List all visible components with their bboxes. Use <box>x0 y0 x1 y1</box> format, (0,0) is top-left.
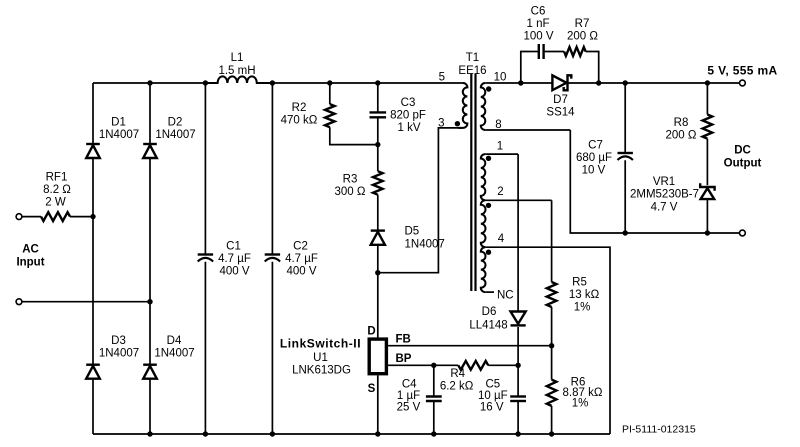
wire VR1 to return rail <box>706 199 708 233</box>
wire RF1 to bridge node <box>70 216 93 218</box>
svg-text:R5: R5 <box>572 277 587 289</box>
svg-text:LinkSwitch-II: LinkSwitch-II <box>280 337 361 351</box>
wire R2 bottom to clamp node <box>330 127 378 144</box>
phasing dot bias pin 2 <box>486 203 491 208</box>
svg-text:BP: BP <box>396 353 412 365</box>
wire R3 to D5 cathode <box>377 195 379 231</box>
svg-text:D4: D4 <box>167 335 182 347</box>
svg-text:S: S <box>368 383 376 395</box>
diode D2 <box>143 143 157 145</box>
svg-text:C3: C3 <box>401 97 416 109</box>
junction bottom bus / R6 <box>549 431 554 436</box>
junction RF1 / D1-D3 node <box>90 214 95 219</box>
wire U1 S pin to bottom bus <box>377 375 379 434</box>
svg-text:1.5 mH: 1.5 mH <box>218 65 255 77</box>
svg-text:D5: D5 <box>405 226 420 238</box>
svg-text:8: 8 <box>495 119 501 131</box>
resistor R5 <box>547 282 557 307</box>
wire snubber right riser <box>586 52 599 84</box>
svg-text:PI-5111-012315: PI-5111-012315 <box>622 424 696 436</box>
svg-text:LNK613DG: LNK613DG <box>292 365 351 377</box>
junction bottom bus / C2 <box>270 431 275 436</box>
svg-text:4.7 µF: 4.7 µF <box>285 253 318 265</box>
diode D1 <box>86 143 100 145</box>
svg-text:1N4007: 1N4007 <box>99 129 139 141</box>
svg-text:200 Ω: 200 Ω <box>666 130 697 142</box>
junction top bus / R2 <box>327 80 332 85</box>
wire D2 anode to AC node <box>149 158 151 302</box>
wire C6 to R7 <box>544 51 565 53</box>
wire D6 cathode to BP node <box>517 327 519 365</box>
phasing dot bias pin 4 <box>486 250 491 255</box>
svg-text:10 µF: 10 µF <box>478 390 508 402</box>
wire C2 to bottom bus <box>271 262 273 434</box>
svg-text:3: 3 <box>438 118 444 130</box>
svg-text:R3: R3 <box>343 174 358 186</box>
wire top bus to C2 <box>271 83 273 255</box>
svg-text:U1: U1 <box>313 352 328 364</box>
junction FB / R5 / R6 <box>549 343 554 348</box>
wire pin 1 lead <box>485 153 518 155</box>
svg-text:D2: D2 <box>168 117 183 129</box>
svg-text:T1: T1 <box>466 52 479 64</box>
svg-text:VR1: VR1 <box>653 176 675 188</box>
wire pin 2 down to R5 <box>551 200 553 282</box>
wire D5 anode to drain node <box>377 245 379 273</box>
wire drain node jog to transformer pin 3 <box>378 128 463 273</box>
svg-text:100 V: 100 V <box>523 31 553 43</box>
capacitor C4 <box>426 395 442 397</box>
wire D6 node to C5 <box>517 365 519 396</box>
junction top bus / C3 <box>375 80 380 85</box>
svg-text:1 kV: 1 kV <box>397 122 420 134</box>
svg-text:10: 10 <box>494 72 507 84</box>
wire pin 10 to snubber node <box>489 82 552 84</box>
wire R4 to D6/C5 node <box>488 364 518 366</box>
svg-text:R4: R4 <box>450 368 465 380</box>
svg-text:1N4007: 1N4007 <box>155 129 195 141</box>
wire pin 8 to return rail <box>570 130 739 233</box>
wire R8 to VR1 <box>706 139 708 186</box>
capacitor C2 <box>265 253 280 255</box>
junction drain node D5/pin3/U1 <box>375 270 380 275</box>
resistor R7 <box>564 47 586 56</box>
svg-text:25 V: 25 V <box>397 402 421 414</box>
transformer T1 bias winding 2-4 <box>481 200 486 247</box>
junction top bus / C1 / L1 left <box>203 80 208 85</box>
junction bottom bus / C5 <box>515 431 520 436</box>
diode D7 SS14 <box>552 75 566 90</box>
wire bottom bus up to transformer pin 4 <box>486 247 610 434</box>
wire D1 anode to RF1 node <box>92 158 94 216</box>
wire D4 anode to bottom bus <box>149 379 151 434</box>
svg-text:C5: C5 <box>485 379 500 391</box>
svg-text:10 V: 10 V <box>582 165 606 177</box>
svg-text:300 Ω: 300 Ω <box>335 186 366 198</box>
input terminal AC line 1 <box>16 214 22 220</box>
svg-text:400 V: 400 V <box>286 266 316 278</box>
junction BP / C4 <box>431 363 436 368</box>
output terminal negative <box>740 230 746 236</box>
wire AC line 1 to RF1 <box>22 216 41 218</box>
svg-text:5: 5 <box>439 72 445 84</box>
svg-text:D1: D1 <box>111 117 126 129</box>
svg-text:820 pF: 820 pF <box>390 110 426 122</box>
svg-text:1 µF: 1 µF <box>397 390 420 402</box>
junction bottom bus / U1 S <box>375 431 380 436</box>
wire R6 to bottom bus <box>551 406 553 434</box>
svg-text:Input: Input <box>16 257 44 269</box>
svg-text:1 nF: 1 nF <box>526 18 549 30</box>
phasing dot primary pin 3 <box>455 121 460 126</box>
junction top bus / C2 / L1 right <box>270 80 275 85</box>
wire D3 anode to bottom bus <box>92 379 94 434</box>
junction R4 / D6 / C5 <box>515 363 520 368</box>
capacitor C7 <box>618 152 633 154</box>
junction return rail / VR1 <box>705 230 710 235</box>
svg-text:R2: R2 <box>292 102 307 114</box>
diode D3 <box>86 364 100 366</box>
wire BP node to C4 <box>433 365 435 396</box>
svg-text:LL4148: LL4148 <box>469 320 507 332</box>
wire rail to R8 <box>706 83 708 115</box>
svg-text:SS14: SS14 <box>546 107 575 119</box>
resistor R6 <box>547 380 557 406</box>
wire top bus L1 to transformer pin 5 <box>272 82 463 84</box>
svg-text:AC: AC <box>22 244 39 256</box>
junction snubber left / rail <box>518 80 523 85</box>
svg-text:D6: D6 <box>482 306 497 318</box>
svg-text:1N4007: 1N4007 <box>99 348 139 360</box>
svg-text:C2: C2 <box>293 241 308 253</box>
wire C4 to bottom bus <box>433 401 435 434</box>
wire pin 4 lead <box>484 246 487 248</box>
wire C6 left lead <box>531 51 539 53</box>
wire AC node down to D4 <box>149 302 151 365</box>
wire bottom bus <box>93 433 610 435</box>
wire top bus corner down to D1 <box>92 83 94 144</box>
junction rail / R8 <box>705 80 710 85</box>
junction top bus / D2 <box>147 80 152 85</box>
svg-text:EE16: EE16 <box>458 65 486 77</box>
wire R5 to FB node <box>551 307 553 346</box>
svg-text:C7: C7 <box>588 140 603 152</box>
wire NC stub <box>485 291 494 293</box>
wire C7 to return rail <box>624 160 626 233</box>
inductor L1 <box>205 76 272 83</box>
svg-text:C4: C4 <box>402 379 417 391</box>
svg-text:Output: Output <box>724 158 762 170</box>
diode D6 <box>511 312 526 324</box>
wire top bus to C3 <box>377 83 379 112</box>
svg-text:2: 2 <box>497 186 503 198</box>
svg-text:RF1: RF1 <box>46 172 68 184</box>
capacitor C5 <box>510 395 526 397</box>
wire drain node to U1 D pin <box>377 273 379 338</box>
diode D5 <box>371 229 385 231</box>
svg-text:D3: D3 <box>111 335 126 347</box>
wire pin 1 down to D6 <box>517 154 519 311</box>
resistor R3 <box>373 171 383 195</box>
transformer T1 bias winding 1-2 <box>481 154 485 200</box>
svg-text:FB: FB <box>396 334 411 346</box>
transformer T1 bias winding 4-NC <box>481 247 486 292</box>
zener diode VR1 <box>700 183 714 190</box>
wire top bus to R2 <box>329 83 331 104</box>
svg-text:680 µF: 680 µF <box>576 152 612 164</box>
wire FB node to R6 <box>551 346 553 380</box>
svg-text:L1: L1 <box>231 52 244 64</box>
resistor RF1 <box>41 212 70 221</box>
output terminal positive <box>740 80 746 86</box>
svg-text:8.2 Ω: 8.2 Ω <box>43 184 71 196</box>
junction bottom bus / C1 <box>203 431 208 436</box>
svg-text:1%: 1% <box>572 397 589 409</box>
svg-text:4.7 V: 4.7 V <box>651 202 678 214</box>
svg-text:470 kΩ: 470 kΩ <box>281 115 318 127</box>
wire pin 2 lead <box>485 199 551 201</box>
phasing dot bias pin 1 <box>486 156 491 161</box>
svg-text:13 kΩ: 13 kΩ <box>569 289 600 301</box>
svg-text:D: D <box>367 326 375 338</box>
resistor R2 <box>325 104 335 127</box>
resistor R4 <box>458 361 488 370</box>
phasing dot secondary pin 10 <box>486 86 491 91</box>
junction AC line 2 / D2-D4 node <box>147 299 152 304</box>
svg-text:200 Ω: 200 Ω <box>567 31 598 43</box>
svg-text:DC: DC <box>734 145 751 157</box>
svg-text:4: 4 <box>498 233 505 245</box>
svg-text:4.7 µF: 4.7 µF <box>218 253 251 265</box>
svg-text:5 V, 555 mA: 5 V, 555 mA <box>707 64 777 78</box>
wire D7 cathode to output rail <box>568 82 740 84</box>
wire top bus to D2 <box>149 83 151 144</box>
op-amp U1 LNK613DG body <box>369 339 386 374</box>
wire top bus D1 to L1 <box>93 82 205 84</box>
wire pin 8 lead <box>485 129 570 131</box>
capacitor C1 <box>198 253 213 255</box>
wire RF1 node down to D3 <box>92 217 94 365</box>
svg-text:2 W: 2 W <box>45 197 66 209</box>
svg-text:400 V: 400 V <box>219 266 249 278</box>
resistor R8 <box>703 115 713 139</box>
wire U1 FB pin <box>388 345 551 347</box>
wire C5 to bottom bus <box>517 401 519 434</box>
svg-text:1: 1 <box>497 141 503 153</box>
transformer T1 primary winding <box>458 83 467 128</box>
svg-text:6.2 kΩ: 6.2 kΩ <box>440 381 474 393</box>
svg-text:C1: C1 <box>226 241 241 253</box>
diode D4 <box>143 364 157 366</box>
capacitor C6 <box>539 44 544 59</box>
transformer T1 core <box>471 74 475 291</box>
svg-text:C6: C6 <box>531 6 546 18</box>
wire top bus to C1 <box>204 83 206 255</box>
junction snubber right / rail <box>596 80 601 85</box>
input terminal AC line 2 <box>16 299 22 305</box>
wire U1 BP pin to R4 <box>388 364 458 366</box>
junction bottom bus / C4 <box>431 431 436 436</box>
junction clamp node R2/C3/R3 <box>375 142 380 147</box>
wire C3 to clamp node <box>377 117 379 144</box>
wire rail to C7 <box>624 83 626 153</box>
svg-text:2MM5230B-7: 2MM5230B-7 <box>630 189 699 201</box>
wire clamp node to R3 <box>377 145 379 172</box>
svg-text:R7: R7 <box>575 18 590 30</box>
svg-text:1%: 1% <box>574 302 591 314</box>
svg-text:16 V: 16 V <box>480 402 504 414</box>
wire C1 to bottom bus <box>204 262 206 434</box>
svg-text:D7: D7 <box>553 94 568 106</box>
transformer T1 secondary winding 10-8 <box>481 83 485 130</box>
wire pin 10 lead <box>485 82 489 84</box>
svg-text:NC: NC <box>497 290 514 302</box>
junction bottom bus / D4 <box>147 431 152 436</box>
wire snubber left riser <box>521 52 531 84</box>
svg-text:1N4007: 1N4007 <box>154 348 194 360</box>
junction rail / C7 <box>623 80 628 85</box>
capacitor C3 <box>370 111 387 113</box>
wire AC line 2 to D2-D4 node <box>22 301 150 303</box>
svg-text:R8: R8 <box>674 117 689 129</box>
junction return rail / C7 <box>623 230 628 235</box>
